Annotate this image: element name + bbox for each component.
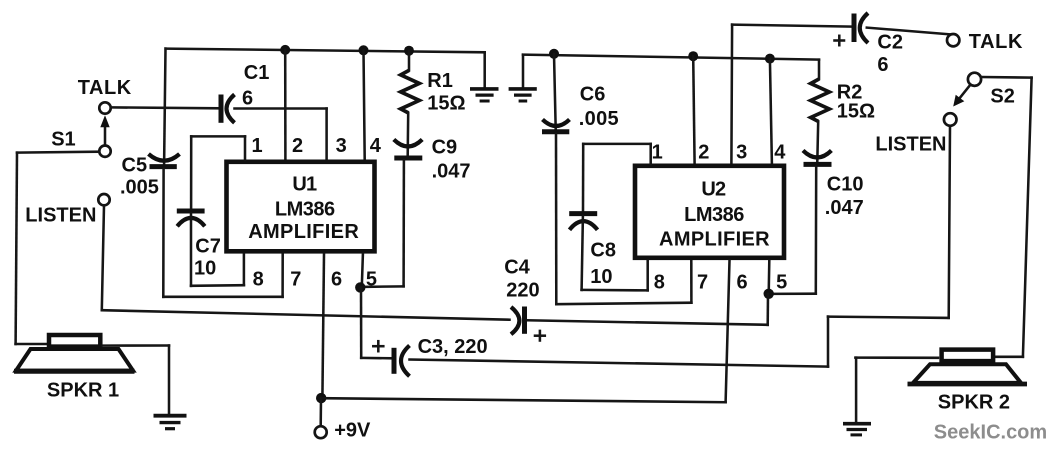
node dot rail1-pin2	[280, 45, 290, 55]
svg-text:LISTEN: LISTEN	[875, 133, 946, 155]
wire TALK1 to C1	[111, 106, 219, 109]
wire LISTEN1 drop	[102, 206, 104, 311]
wire S1 down left side	[16, 153, 17, 344]
resistor R1	[401, 51, 420, 113]
svg-text:10: 10	[590, 266, 612, 288]
svg-text:U1: U1	[292, 173, 317, 195]
pin 8 label U2	[654, 272, 665, 294]
svg-text:AMPLIFIER: AMPLIFIER	[659, 228, 770, 250]
svg-text:6: 6	[737, 272, 748, 294]
svg-text:1: 1	[252, 135, 263, 157]
label C9	[432, 137, 458, 159]
wire gnd1 drop	[483, 52, 486, 87]
wire R1 to C9	[406, 113, 409, 156]
wire to +9V terminal	[319, 398, 322, 426]
svg-text:6: 6	[877, 54, 888, 76]
node dot rail1-R1	[404, 46, 414, 56]
svg-text:.005: .005	[579, 108, 619, 130]
wire pin7 U1	[281, 254, 284, 297]
node dot rail2-C6	[549, 49, 559, 59]
wire pin4 U2	[770, 59, 772, 164]
pin 7 label U2	[697, 272, 708, 294]
wire rail2 to C6	[554, 54, 556, 130]
wire C7 to loop1 bottom	[191, 214, 244, 286]
wire up jog	[827, 317, 830, 367]
svg-text:R1: R1	[427, 70, 453, 92]
node dot rail1-pin4	[359, 45, 369, 55]
label R2	[837, 82, 863, 104]
wire C3 right long	[410, 360, 829, 367]
svg-text:15Ω: 15Ω	[427, 92, 465, 114]
capacitor C3	[394, 346, 410, 377]
capacitor C1	[221, 95, 235, 123]
label C5 value	[120, 177, 159, 199]
svg-text:LISTEN: LISTEN	[25, 204, 96, 226]
svg-text:C8: C8	[590, 240, 616, 262]
wire S1 pole left	[17, 150, 99, 153]
svg-text:2: 2	[292, 135, 303, 157]
wire S2 down to SPKR2	[1023, 78, 1032, 357]
label C4 value	[506, 280, 539, 302]
svg-text:4: 4	[370, 135, 382, 157]
wire R2 to C10	[816, 121, 819, 162]
svg-text:7: 7	[697, 272, 708, 294]
svg-text:TALK: TALK	[78, 77, 132, 99]
pin 8 label U1	[253, 269, 264, 291]
svg-text:S1: S1	[51, 129, 75, 151]
label +9V	[334, 419, 371, 441]
resistor R2	[811, 60, 830, 122]
svg-text:C2: C2	[877, 31, 903, 53]
wire C6 bottom to pin7 U2	[556, 134, 691, 304]
svg-text:TALK: TALK	[969, 31, 1023, 53]
svg-text:C6: C6	[580, 84, 606, 106]
wire LISTEN1 to C4 long	[102, 310, 510, 320]
svg-text:6: 6	[242, 88, 253, 110]
wire SPKR1 gnd drop	[168, 346, 171, 414]
svg-text:8: 8	[253, 269, 264, 291]
pin 5 label U1	[366, 269, 377, 291]
capacitor C9	[394, 140, 423, 159]
wire pin6 U2 down	[726, 261, 730, 403]
wire SPKR2 left lead	[855, 356, 938, 359]
svg-text:.005: .005	[120, 177, 159, 199]
label R2 value	[837, 101, 875, 123]
ground G2	[509, 89, 537, 101]
pin 7 label U1	[290, 269, 301, 291]
wire to C3	[361, 357, 392, 360]
wire loop2 left to C8	[582, 144, 585, 211]
pin 4 label U2	[774, 142, 786, 164]
label C8	[590, 240, 616, 262]
label C2 value	[877, 54, 888, 76]
svg-text:7: 7	[290, 269, 301, 291]
label SPKR 2	[938, 392, 1010, 414]
svg-text:C9: C9	[432, 137, 458, 159]
wire pin8 U1	[243, 254, 246, 285]
op-amp U2	[635, 166, 784, 258]
wire pin5 U2 down	[766, 294, 769, 325]
svg-text:3: 3	[336, 135, 347, 157]
label R1 value	[427, 92, 465, 114]
ground G3	[843, 424, 871, 435]
label R1	[427, 70, 453, 92]
node dot pin5 U1	[355, 282, 365, 292]
wire pin5 node down	[360, 288, 363, 358]
pin 6 label U2	[737, 272, 748, 294]
svg-text:C1: C1	[244, 62, 270, 84]
pin 5 label U2	[776, 272, 787, 294]
wire C9 down to pin5 node	[360, 160, 404, 287]
op-amp U1	[227, 162, 375, 252]
label C2	[877, 31, 903, 53]
watermark SeekIC.com	[934, 422, 1047, 444]
svg-text:.047: .047	[432, 161, 471, 183]
label C6	[580, 84, 606, 106]
ground G1	[470, 89, 499, 101]
node dot rail2-pin2	[688, 51, 698, 61]
terminal S1 pole circle	[99, 146, 110, 157]
ground G-SPKR1	[154, 416, 187, 429]
terminal +9V circle	[315, 426, 327, 438]
label C6 value	[579, 108, 619, 130]
capacitor C2	[854, 13, 868, 43]
svg-text:1: 1	[652, 142, 663, 164]
terminal LISTEN2 circle	[944, 113, 957, 126]
pin 2 label U1	[292, 135, 303, 157]
wire +9V rail	[321, 398, 725, 402]
svg-text:5: 5	[366, 269, 377, 291]
speaker SPKR1	[14, 335, 135, 371]
wire SPKR1 right	[103, 344, 170, 347]
label TALK S1	[78, 77, 132, 99]
pin 3 label U2	[736, 142, 747, 164]
label C4	[504, 257, 530, 279]
capacitor C8	[569, 214, 597, 230]
svg-text:C4: C4	[504, 257, 530, 279]
label C1 value	[242, 88, 253, 110]
svg-text:6: 6	[331, 269, 342, 291]
label S1	[51, 129, 75, 151]
pin 1 label U1	[252, 135, 263, 157]
wire C5 bottom to pin7	[163, 169, 282, 297]
capacitor C6	[542, 120, 570, 132]
terminal TALK1 circle	[99, 102, 110, 113]
svg-text:15Ω: 15Ω	[837, 101, 875, 123]
label C10	[827, 174, 864, 196]
wire ground-rail-1	[166, 49, 485, 53]
switch S1 arrow	[100, 115, 109, 145]
wire ground-rail-2	[523, 55, 819, 60]
plus sign C3	[373, 341, 383, 351]
svg-text:S2: S2	[990, 86, 1014, 108]
wire C8 to loop2 bottom	[582, 216, 648, 290]
svg-text:U2: U2	[701, 179, 726, 201]
pin 4 label U1	[370, 135, 382, 157]
wire pin4 U1	[364, 50, 365, 160]
wire C10 down to pin5 node	[769, 167, 816, 294]
svg-text:8: 8	[654, 272, 665, 294]
wire pin1 U2 feedback loop top	[583, 144, 651, 164]
plus sign C4	[535, 331, 545, 341]
svg-text:C7: C7	[195, 236, 221, 258]
svg-text:SeekIC.com: SeekIC.com	[934, 422, 1047, 444]
pin 6 label U1	[331, 269, 342, 291]
label C9 value	[432, 161, 471, 183]
label C1	[244, 62, 270, 84]
svg-text:2: 2	[698, 142, 709, 164]
label TALK S2	[969, 31, 1023, 53]
svg-text:AMPLIFIER: AMPLIFIER	[248, 221, 359, 243]
label C3 value	[418, 336, 488, 358]
wire C1 to pin3 U1	[235, 109, 327, 161]
wire C2 to TALK2	[867, 28, 951, 35]
wire gnd2 drop	[522, 55, 525, 87]
svg-text:SPKR 1: SPKR 1	[47, 379, 119, 401]
label SPKR 1	[47, 379, 119, 401]
wire pin2 U2	[693, 56, 694, 164]
svg-text:LM386: LM386	[275, 199, 335, 221]
label C8 value	[590, 266, 612, 288]
plus sign C2	[835, 36, 845, 45]
wire SPKR2 gnd drop	[855, 358, 858, 422]
label C10 value	[825, 197, 864, 219]
capacitor C4	[511, 307, 525, 335]
node dot +9V	[316, 393, 326, 403]
node dot pin5 U2	[764, 289, 774, 299]
switch S2 pole circle	[968, 73, 981, 86]
wire up to LISTEN2	[949, 126, 950, 318]
pin 1 label U2	[652, 142, 663, 164]
svg-text:C3, 220: C3, 220	[418, 336, 488, 358]
wire pin6 U1 down	[322, 254, 324, 398]
svg-text:C5: C5	[122, 155, 148, 177]
wire SPKR2 right lead	[996, 356, 1023, 359]
label LISTEN S1	[25, 204, 96, 226]
wire loop1 left to C7	[190, 136, 193, 208]
wire rail1 to C5	[164, 49, 165, 165]
svg-text:5: 5	[776, 272, 787, 294]
terminal LISTEN1 circle	[98, 194, 109, 205]
svg-text:.047: .047	[825, 197, 864, 219]
capacitor C10	[803, 151, 832, 165]
wire S2 pole right	[982, 76, 1032, 79]
wire pin3 U2 up	[730, 25, 733, 164]
node dot rail2-pin4	[765, 54, 775, 64]
wire pin2 U1	[284, 50, 287, 160]
capacitor C7	[177, 211, 205, 226]
wire pin5 U1 to node	[362, 254, 363, 287]
svg-text:4: 4	[774, 142, 786, 164]
svg-text:220: 220	[506, 280, 539, 302]
label C5	[122, 155, 148, 177]
pin 2 label U2	[698, 142, 709, 164]
svg-text:SPKR 2: SPKR 2	[938, 392, 1010, 414]
terminal TALK2 circle	[947, 34, 959, 46]
wire to C2	[732, 25, 852, 27]
wire pin1 U1 feedback loop top	[191, 136, 245, 160]
wire pin8 U2	[646, 261, 649, 291]
label LISTEN S2	[875, 133, 946, 155]
svg-text:10: 10	[194, 258, 216, 280]
pin 3 label U1	[336, 135, 347, 157]
wire pin7 U2	[690, 261, 693, 303]
wire jog right	[828, 317, 949, 318]
label S2	[990, 86, 1014, 108]
svg-text:LM386: LM386	[684, 204, 744, 226]
svg-text:3: 3	[736, 142, 747, 164]
capacitor C5	[149, 154, 180, 167]
svg-text:+9V: +9V	[334, 419, 371, 441]
speaker SPKR2	[908, 350, 1028, 384]
label C7 value	[194, 258, 216, 280]
wire pin5 U2 stub	[767, 261, 770, 294]
label C7	[195, 236, 221, 258]
switch S2 arrow	[953, 85, 970, 106]
svg-text:C10: C10	[827, 174, 864, 196]
wire C4 right	[527, 320, 768, 325]
wire to SPKR1	[16, 343, 47, 346]
